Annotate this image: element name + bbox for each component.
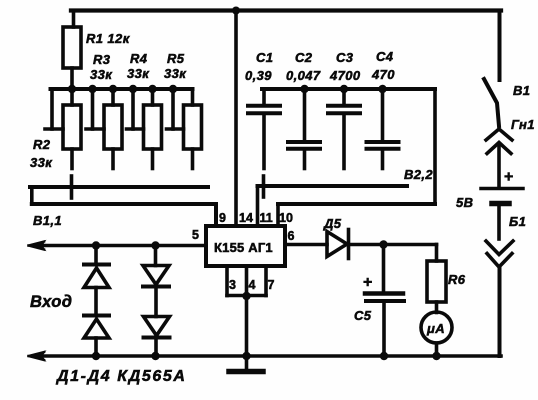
svg-text:Вход: Вход [30,293,72,311]
resistor R4 [144,105,162,149]
svg-text:470: 470 [371,67,395,82]
svg-text:0,047: 0,047 [286,68,321,83]
svg-text:6: 6 [288,229,295,243]
svg-text:С1: С1 [256,50,273,65]
capacitor C5 top lead [382,245,386,292]
svg-text:4700: 4700 [329,68,361,83]
wire capacitor bus [262,87,435,91]
node D2-bottom rail [92,352,100,360]
svg-text:R6: R6 [448,272,466,287]
node D4-bottom rail [151,352,159,360]
node D5-C5 junction [379,240,387,248]
node C5-bottom rail [380,352,388,360]
svg-text:+: + [363,274,372,291]
resistor R5 [184,105,202,149]
svg-text:33к: 33к [164,66,187,81]
wire R4 bottom lead [151,149,155,169]
wire ground drop [245,296,249,357]
wire tap2 stub [86,127,104,131]
wire R1 bottom lead [70,68,74,89]
wire R6 to meter [435,302,439,313]
node bus-C4 [378,85,386,93]
resistor R2 [63,105,81,149]
switch B1 blade [484,79,499,126]
wire connector to battery [497,145,501,187]
svg-text:+: + [504,169,513,186]
svg-text:μА: μА [426,321,445,336]
wire tap1 left drop [50,89,54,129]
svg-text:9: 9 [219,211,226,225]
wire bottom input rail [33,354,501,358]
wire D4 bottom lead [154,338,158,356]
wire D2 bottom lead [94,338,98,356]
battery B1 positive plate [481,187,523,191]
wire pin10 riser [276,204,280,226]
svg-text:5: 5 [192,228,199,242]
svg-text:С5: С5 [354,308,372,323]
ground [229,356,263,372]
svg-text:10: 10 [279,211,293,225]
svg-text:R4: R4 [130,51,148,66]
wire right column bottom [498,267,502,356]
wire R4 top lead [151,89,155,105]
meter PA1 [421,312,452,343]
diode D1 [84,265,109,288]
switch B2.2 wiper bar [258,184,408,188]
wire tap2 drop [91,89,95,129]
connector plug upper chevron [486,241,513,255]
svg-text:R3: R3 [93,52,111,67]
wire B1.1 lower bar [32,202,216,206]
svg-text:С2: С2 [295,50,313,65]
resistor R3 [104,105,122,149]
connector plug lower chevron [487,254,512,268]
wire D3-D4 [154,287,158,317]
node bus tap4 [169,85,177,93]
diode D3 [143,266,169,287]
wire right column top [498,11,502,81]
wire B1.1 to pin9 [214,204,218,226]
wire B1.1 left drop [30,187,34,204]
switch B1.1 wiper bar [30,185,208,189]
wire top power rail [71,8,501,12]
op-amp U1 К155АГ1 box [206,226,285,266]
svg-text:R5: R5 [167,51,185,66]
capacitor C5 [365,294,404,357]
wire R3 bottom lead [111,149,115,169]
svg-text:В1: В1 [513,83,530,98]
svg-text:С4: С4 [376,49,394,64]
svg-text:R2: R2 [33,137,51,152]
node input-D3 [151,241,159,249]
svg-text:33к: 33к [127,66,150,81]
wire R5 top lead [191,89,195,105]
svg-text:Б1: Б1 [509,214,526,229]
svg-text:Гн1: Гн1 [511,117,535,132]
node bus tap2 [88,85,96,93]
switch B2.2 contact tick [262,176,266,197]
node pins join [242,292,250,300]
wire resistor bank bus [51,87,193,91]
connector Gn1 upper chevron [486,129,512,140]
wire B2.2 to pin11 [256,186,260,226]
arrow input top [29,240,47,251]
node bus-C2 [300,85,308,93]
svg-text:В2,2: В2,2 [404,167,433,182]
wire R2 top lead [70,89,74,105]
svg-text:14: 14 [239,211,253,225]
wire R6 top lead [435,245,439,262]
node input-D1 [92,241,100,249]
svg-text:4: 4 [249,278,256,292]
svg-text:С3: С3 [336,50,354,65]
wire battery to plug [497,206,501,239]
svg-text:0,39: 0,39 [245,68,272,83]
wire tap4 stub [167,127,184,131]
wire pin6 lead [285,243,327,247]
svg-text:33к: 33к [30,155,53,170]
wire D1-D2 [94,288,98,316]
svg-text:11: 11 [260,211,273,225]
wire R5 bottom lead [191,149,195,169]
node bus-R2 [68,85,76,93]
node bus tap3 [129,85,137,93]
wire Vcc riser to pin14 [234,11,238,227]
node bus-C3 [340,85,348,93]
svg-text:R1 12к: R1 12к [86,31,131,46]
IC pin7 lead [264,266,268,296]
wire D5 cathode to R6 [349,243,437,247]
wire R1 top lead [72,11,76,28]
capacitor C1 [248,89,280,169]
svg-text:К155 АГ1: К155 АГ1 [214,240,273,255]
IC pin4 lead [245,266,249,296]
wire tap3 stub [127,127,144,131]
svg-text:Д1-Д4 КД565А: Д1-Д4 КД565А [55,368,187,385]
wire R3 top lead [111,89,115,105]
node bus-R4 [148,85,156,93]
svg-text:33к: 33к [90,67,113,82]
wire meter bottom lead [435,343,439,356]
svg-text:7: 7 [268,278,275,292]
diode D3 chain top lead [154,246,158,266]
diode D1 chain top lead [94,246,98,265]
resistor R6 [427,261,446,302]
diode D4 [144,317,170,338]
svg-text:В1,1: В1,1 [33,213,62,228]
wire tap4 drop [171,89,175,129]
wire tap3 drop [131,89,135,129]
wire pin10 horizontal [278,202,435,206]
capacitor C3 [328,89,360,169]
node ground junction [242,352,250,360]
capacitor C4 [367,89,399,169]
connector Gn1 lower chevron [487,143,511,154]
diode D2 [84,316,109,339]
battery B1 negative plate [492,201,509,207]
diode D5 [327,230,349,259]
wire pins 3-4-7 join bar [227,294,266,298]
switch B1.1 contact tick [70,176,74,198]
node meter-bottom rail [432,352,440,360]
node bus-R3 [109,85,117,93]
resistor R1 [63,27,81,68]
wire tap1 stub [45,127,63,131]
wire pin5 input rail [33,244,206,248]
svg-text:Д5: Д5 [323,216,342,231]
IC pin3 lead [225,266,229,296]
wire right cap riser [433,89,437,204]
arrow input bottom [29,350,47,361]
node top rail / pin14 riser junction [232,7,240,15]
svg-text:3: 3 [229,278,236,292]
capacitor C2 [288,89,320,169]
svg-text:5В: 5В [456,195,473,210]
wire R2 bottom lead [70,149,74,169]
